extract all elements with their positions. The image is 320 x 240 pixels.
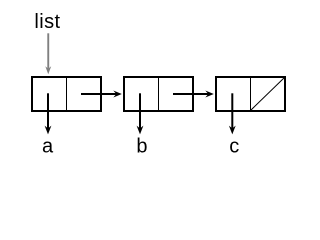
node box 3 divider bbox=[250, 78, 252, 110]
node box 1 divider bbox=[66, 78, 68, 110]
svg-text:b: b bbox=[136, 136, 147, 158]
node box 2 divider bbox=[158, 78, 160, 110]
null diagonal 3 bbox=[251, 78, 285, 111]
arrowhead list-pointer (gray) bbox=[45, 66, 51, 74]
svg-text:list: list bbox=[34, 11, 60, 33]
node box 2 bbox=[124, 77, 193, 111]
wire next-pointer 1 bbox=[81, 93, 116, 95]
wire list-pointer (gray) bbox=[47, 33, 49, 69]
arrowhead next-pointer 2 bbox=[205, 91, 214, 98]
node box 3 bbox=[216, 77, 285, 111]
arrowhead next-pointer 1 bbox=[113, 91, 122, 98]
arrowhead data-pointer 2 bbox=[137, 126, 144, 135]
wire data-pointer 3 bbox=[231, 93, 233, 129]
wire data-pointer 2 bbox=[139, 93, 141, 129]
arrowhead data-pointer 3 bbox=[229, 126, 236, 135]
arrowhead data-pointer 1 bbox=[45, 126, 52, 135]
svg-text:c: c bbox=[229, 136, 239, 158]
wire data-pointer 1 bbox=[47, 93, 49, 129]
node box 1 bbox=[32, 77, 101, 111]
svg-text:a: a bbox=[42, 136, 54, 158]
wire next-pointer 2 bbox=[173, 93, 208, 95]
